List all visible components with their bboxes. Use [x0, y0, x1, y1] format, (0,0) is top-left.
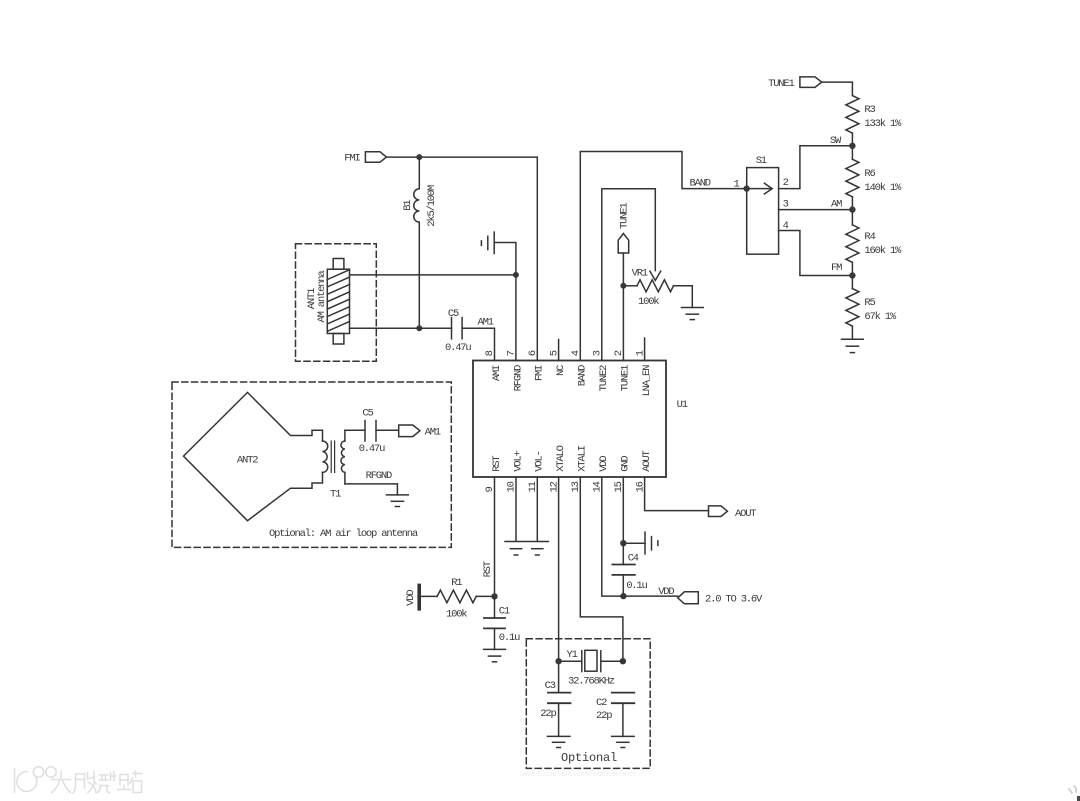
- ANT1 dashed box: [296, 244, 377, 361]
- wire R5 to ground: [851, 326, 853, 339]
- wire C5 to U1 pin8: [462, 328, 494, 360]
- ground (below C2): [612, 736, 635, 747]
- capacitor C5 0.47u (AM input): [445, 308, 471, 354]
- wire R3 to SW node: [851, 133, 853, 159]
- watermark logo: [15, 767, 57, 792]
- U1 pin 10 number and name VOL+: [506, 450, 525, 492]
- U1 pin 2 number and name TUNE1: [613, 350, 632, 391]
- connector AM1 (loop antenna): [399, 425, 441, 438]
- U1 pin 3 number and name TUNE2: [592, 350, 611, 391]
- svg-text:FMI: FMI: [344, 153, 360, 165]
- wire S1 pin2 to SW node: [779, 146, 853, 189]
- node TUNE1/VR1 junction: [620, 283, 626, 289]
- node RST junction: [491, 593, 497, 599]
- svg-text:22p: 22p: [596, 710, 612, 722]
- wire T1 secondary top to C5: [345, 429, 365, 431]
- transformer T1: [323, 430, 345, 500]
- wire S1 pin4 to FM node: [779, 231, 853, 276]
- U1 pin 11 number and name VOL-: [527, 451, 546, 492]
- svg-text:Y1: Y1: [567, 649, 578, 661]
- svg-text:TUNE2: TUNE2: [598, 365, 610, 391]
- svg-text:22p: 22p: [540, 708, 556, 720]
- wire U1 pin11 VOL- to ground: [536, 477, 538, 541]
- connector TUNE1 (top right): [768, 77, 822, 90]
- svg-text:FMI: FMI: [534, 365, 546, 381]
- wire AOUT from U1 pin16: [645, 477, 709, 511]
- svg-text:100k: 100k: [446, 608, 467, 620]
- connector FMI: [344, 152, 386, 165]
- svg-text:AOUT: AOUT: [641, 450, 653, 471]
- svg-text:0.47u: 0.47u: [445, 342, 471, 354]
- U1 pin 6 number and name FMI: [527, 350, 546, 381]
- svg-text:4: 4: [570, 350, 582, 356]
- antenna ANT2 (air loop): [184, 392, 323, 520]
- svg-text:VDD: VDD: [658, 586, 674, 598]
- svg-text:B1: B1: [402, 200, 414, 211]
- wire BAND from U1 pin4 to S1 pin1: [580, 152, 746, 361]
- svg-text:3: 3: [783, 199, 789, 211]
- op-amp U1 (IC body): [473, 361, 688, 478]
- ground (below C1): [484, 649, 506, 661]
- svg-text:2: 2: [613, 350, 625, 356]
- corner mark bottom right: [1069, 786, 1080, 801]
- wire XTALI from U1 pin13 to Y1: [580, 477, 623, 661]
- svg-text:0.47u: 0.47u: [359, 443, 385, 455]
- svg-text:BAND: BAND: [690, 177, 711, 189]
- node SW: [830, 135, 856, 149]
- U1 pin 7 number and name RFGND: [506, 350, 525, 391]
- ground (below R5): [842, 339, 864, 352]
- crystal Y1 32.768KHz: [559, 649, 623, 688]
- svg-text:TUNE1: TUNE1: [768, 78, 794, 90]
- capacitor C2 22p: [596, 693, 634, 737]
- svg-text:5: 5: [548, 350, 560, 356]
- svg-text:140k 1%: 140k 1%: [864, 182, 902, 194]
- svg-text:1: 1: [634, 350, 646, 356]
- potentiometer VR1 100k: [623, 267, 692, 308]
- svg-text:S1: S1: [756, 155, 767, 167]
- svg-text:2: 2: [783, 177, 789, 189]
- svg-text:www.10100.com schematic refere: www.10100.com schematic reference: [519, 771, 636, 778]
- svg-text:U1: U1: [677, 399, 688, 411]
- svg-text:TUNE1: TUNE1: [620, 365, 632, 391]
- svg-text:3: 3: [592, 350, 604, 356]
- net RFGND label: [366, 470, 392, 482]
- connector VDD (pointing left) 2.0 TO 3.6V: [658, 586, 763, 606]
- net AM1 label (near U1): [478, 316, 494, 328]
- svg-text:R4: R4: [864, 231, 875, 243]
- node S1 pin1 junction: [744, 185, 750, 191]
- svg-text:VR1: VR1: [632, 267, 648, 279]
- wire U1 pin10 VOL+ to ground: [515, 477, 517, 541]
- U1 pin 1 stub (LNA_EN): [644, 338, 646, 361]
- svg-text:0.1u: 0.1u: [499, 632, 520, 644]
- S1 pin 3 number: [783, 199, 789, 211]
- U1 pin 15 number and name GND: [613, 456, 632, 493]
- svg-text:AM1: AM1: [425, 426, 441, 438]
- watermark text: [52, 771, 143, 793]
- wire VR1 to ground: [691, 286, 693, 308]
- svg-text:T1: T1: [330, 488, 341, 500]
- wire R4 to FM node: [851, 262, 853, 288]
- capacitor C1 0.1u: [484, 596, 520, 649]
- svg-text:FM: FM: [831, 262, 842, 274]
- svg-text:VDD: VDD: [405, 590, 417, 606]
- S1 pin 1 number: [734, 178, 740, 190]
- svg-text:100k: 100k: [638, 296, 659, 308]
- capacitor C5 0.47u (loop antenna): [359, 407, 399, 454]
- node Y1 right junction: [620, 658, 626, 664]
- ground (below VR1): [681, 308, 703, 320]
- svg-text:0.1u: 0.1u: [626, 580, 647, 592]
- svg-text:RST: RST: [482, 561, 494, 577]
- svg-text:Optional: AM air loop antenna: Optional: AM air loop antenna: [269, 528, 418, 540]
- ANT2 dashed box: [172, 382, 451, 547]
- node Y1 left junction: [555, 658, 561, 664]
- ground (RFGND, left-pointing): [481, 232, 494, 253]
- svg-text:C1: C1: [499, 605, 510, 617]
- svg-text:C5: C5: [448, 308, 459, 320]
- svg-text:NC: NC: [555, 365, 567, 376]
- U1 pin 1 number and name LNA_EN: [634, 350, 653, 396]
- resistor R1 100k: [420, 577, 495, 620]
- capacitor C3 22p: [540, 680, 570, 736]
- wire R6 to AM node: [851, 197, 853, 225]
- ground (below VOL+ and VOL-): [505, 542, 548, 556]
- svg-text:AMI: AMI: [491, 365, 503, 381]
- svg-text:VDD: VDD: [598, 456, 610, 472]
- svg-text:C3: C3: [545, 680, 556, 692]
- U1 pin 14 number and name VDD: [592, 456, 611, 493]
- svg-text:R3: R3: [864, 104, 875, 116]
- inductor B1 2k5/100M: [402, 157, 438, 328]
- node FMI/B1 junction: [416, 154, 422, 160]
- switch S1: [747, 155, 779, 254]
- resistor R6 140k 1%: [846, 159, 902, 197]
- node GND/C4 junction: [620, 540, 626, 546]
- resistor R4 160k 1%: [846, 225, 902, 263]
- svg-text:VOL+: VOL+: [512, 450, 524, 471]
- wire TUNE1 connector to U1 pin2: [622, 253, 624, 361]
- wire ANT1 bottom to C5: [350, 327, 452, 329]
- svg-text:2k5/100M: 2k5/100M: [426, 185, 438, 227]
- svg-text:6: 6: [527, 350, 539, 356]
- svg-text:32.768KHz: 32.768KHz: [568, 675, 615, 687]
- ground (right of pin15, right-pointing): [623, 532, 658, 554]
- connector AOUT: [709, 506, 757, 520]
- node VDD junction: [620, 593, 626, 599]
- svg-text:LNA_EN: LNA_EN: [641, 365, 653, 397]
- U1 pin 8 number and name AMI: [484, 350, 503, 381]
- ground (below T1): [387, 495, 409, 507]
- svg-text:2.0 TO 3.6V: 2.0 TO 3.6V: [705, 594, 763, 606]
- svg-text:R5: R5: [864, 297, 875, 309]
- S1 pin 4 number: [783, 220, 789, 232]
- node B1/AM1 junction: [416, 325, 422, 331]
- wire S1 pin3 to AM node: [779, 209, 853, 211]
- svg-text:RFGND: RFGND: [512, 365, 524, 391]
- svg-text:AOUT: AOUT: [735, 508, 756, 520]
- net BAND label: [690, 177, 711, 189]
- wire TUNE1 to R3: [822, 82, 853, 96]
- wire FMI to U1 pin6: [387, 157, 538, 360]
- wire U1 pin14 VDD: [602, 477, 624, 596]
- S1 pin 2 number: [783, 177, 789, 189]
- svg-text:BAND: BAND: [577, 365, 589, 386]
- antenna ANT1 AM antenna: [306, 259, 350, 345]
- wire RFGND ground to U1 pin7: [494, 243, 516, 361]
- svg-text:C2: C2: [596, 697, 607, 709]
- wire TUNE2 from U1 pin3 to VR1 wiper: [602, 189, 656, 361]
- U1 pin 5 number and name NC: [548, 350, 567, 376]
- svg-text:133k 1%: 133k 1%: [864, 118, 902, 130]
- svg-text:AM antenna: AM antenna: [316, 271, 328, 323]
- Optional dashed box (crystal): [526, 639, 650, 769]
- wire XTALO from U1 pin12 to Y1: [558, 477, 560, 693]
- capacitor C4 0.1u: [612, 543, 647, 596]
- node FM: [831, 262, 856, 279]
- resistor R3 133k 1%: [846, 96, 902, 134]
- svg-text:RFGND: RFGND: [366, 470, 392, 482]
- svg-text:VOL-: VOL-: [534, 451, 546, 471]
- svg-text:AM: AM: [831, 199, 842, 211]
- svg-text:XTALI: XTALI: [577, 445, 589, 471]
- svg-text:AM1: AM1: [478, 316, 494, 328]
- U1 pin 9 number and name RST: [484, 456, 503, 493]
- svg-text:ANT2: ANT2: [237, 455, 258, 467]
- svg-text:C5: C5: [362, 407, 373, 419]
- svg-text:XTALO: XTALO: [555, 445, 567, 471]
- watermark small footer text: [519, 771, 636, 778]
- wire U1 pin15 GND: [622, 477, 624, 543]
- wire VDD node to connector: [623, 595, 677, 597]
- power VDD (left of R1): [405, 585, 419, 608]
- U1 pin 13 number and name XTALI: [570, 445, 589, 492]
- svg-text:R1: R1: [451, 577, 462, 589]
- node RFGND/ANT1 junction: [513, 272, 519, 278]
- svg-text:R6: R6: [864, 168, 875, 180]
- resistor R5 67k 1%: [846, 289, 897, 327]
- U1 pin 4 number and name BAND: [570, 350, 589, 386]
- ground (below C3): [547, 736, 570, 747]
- U1 pin 12 number and name XTALO: [548, 445, 567, 492]
- svg-text:7: 7: [506, 350, 518, 356]
- node AM: [831, 199, 856, 213]
- svg-text:C4: C4: [628, 553, 639, 565]
- wire RST from U1 pin9: [482, 477, 495, 596]
- svg-text:67k 1%: 67k 1%: [864, 311, 897, 323]
- svg-text:8: 8: [484, 350, 496, 356]
- svg-text:Optional: Optional: [561, 751, 617, 765]
- wire T1 secondary bottom to ground: [345, 484, 398, 495]
- wire ANT1 top to RFGND node: [350, 274, 516, 276]
- svg-text:TUNE1: TUNE1: [619, 203, 631, 229]
- svg-text:RST: RST: [491, 456, 503, 472]
- svg-text:160k 1%: 160k 1%: [864, 245, 902, 257]
- U1 pin 5 stub (NC): [558, 340, 560, 361]
- svg-text:GND: GND: [620, 456, 632, 472]
- U1 pin 16 number and name AOUT: [634, 450, 653, 492]
- connector TUNE1 (middle, pointing up): [618, 203, 630, 253]
